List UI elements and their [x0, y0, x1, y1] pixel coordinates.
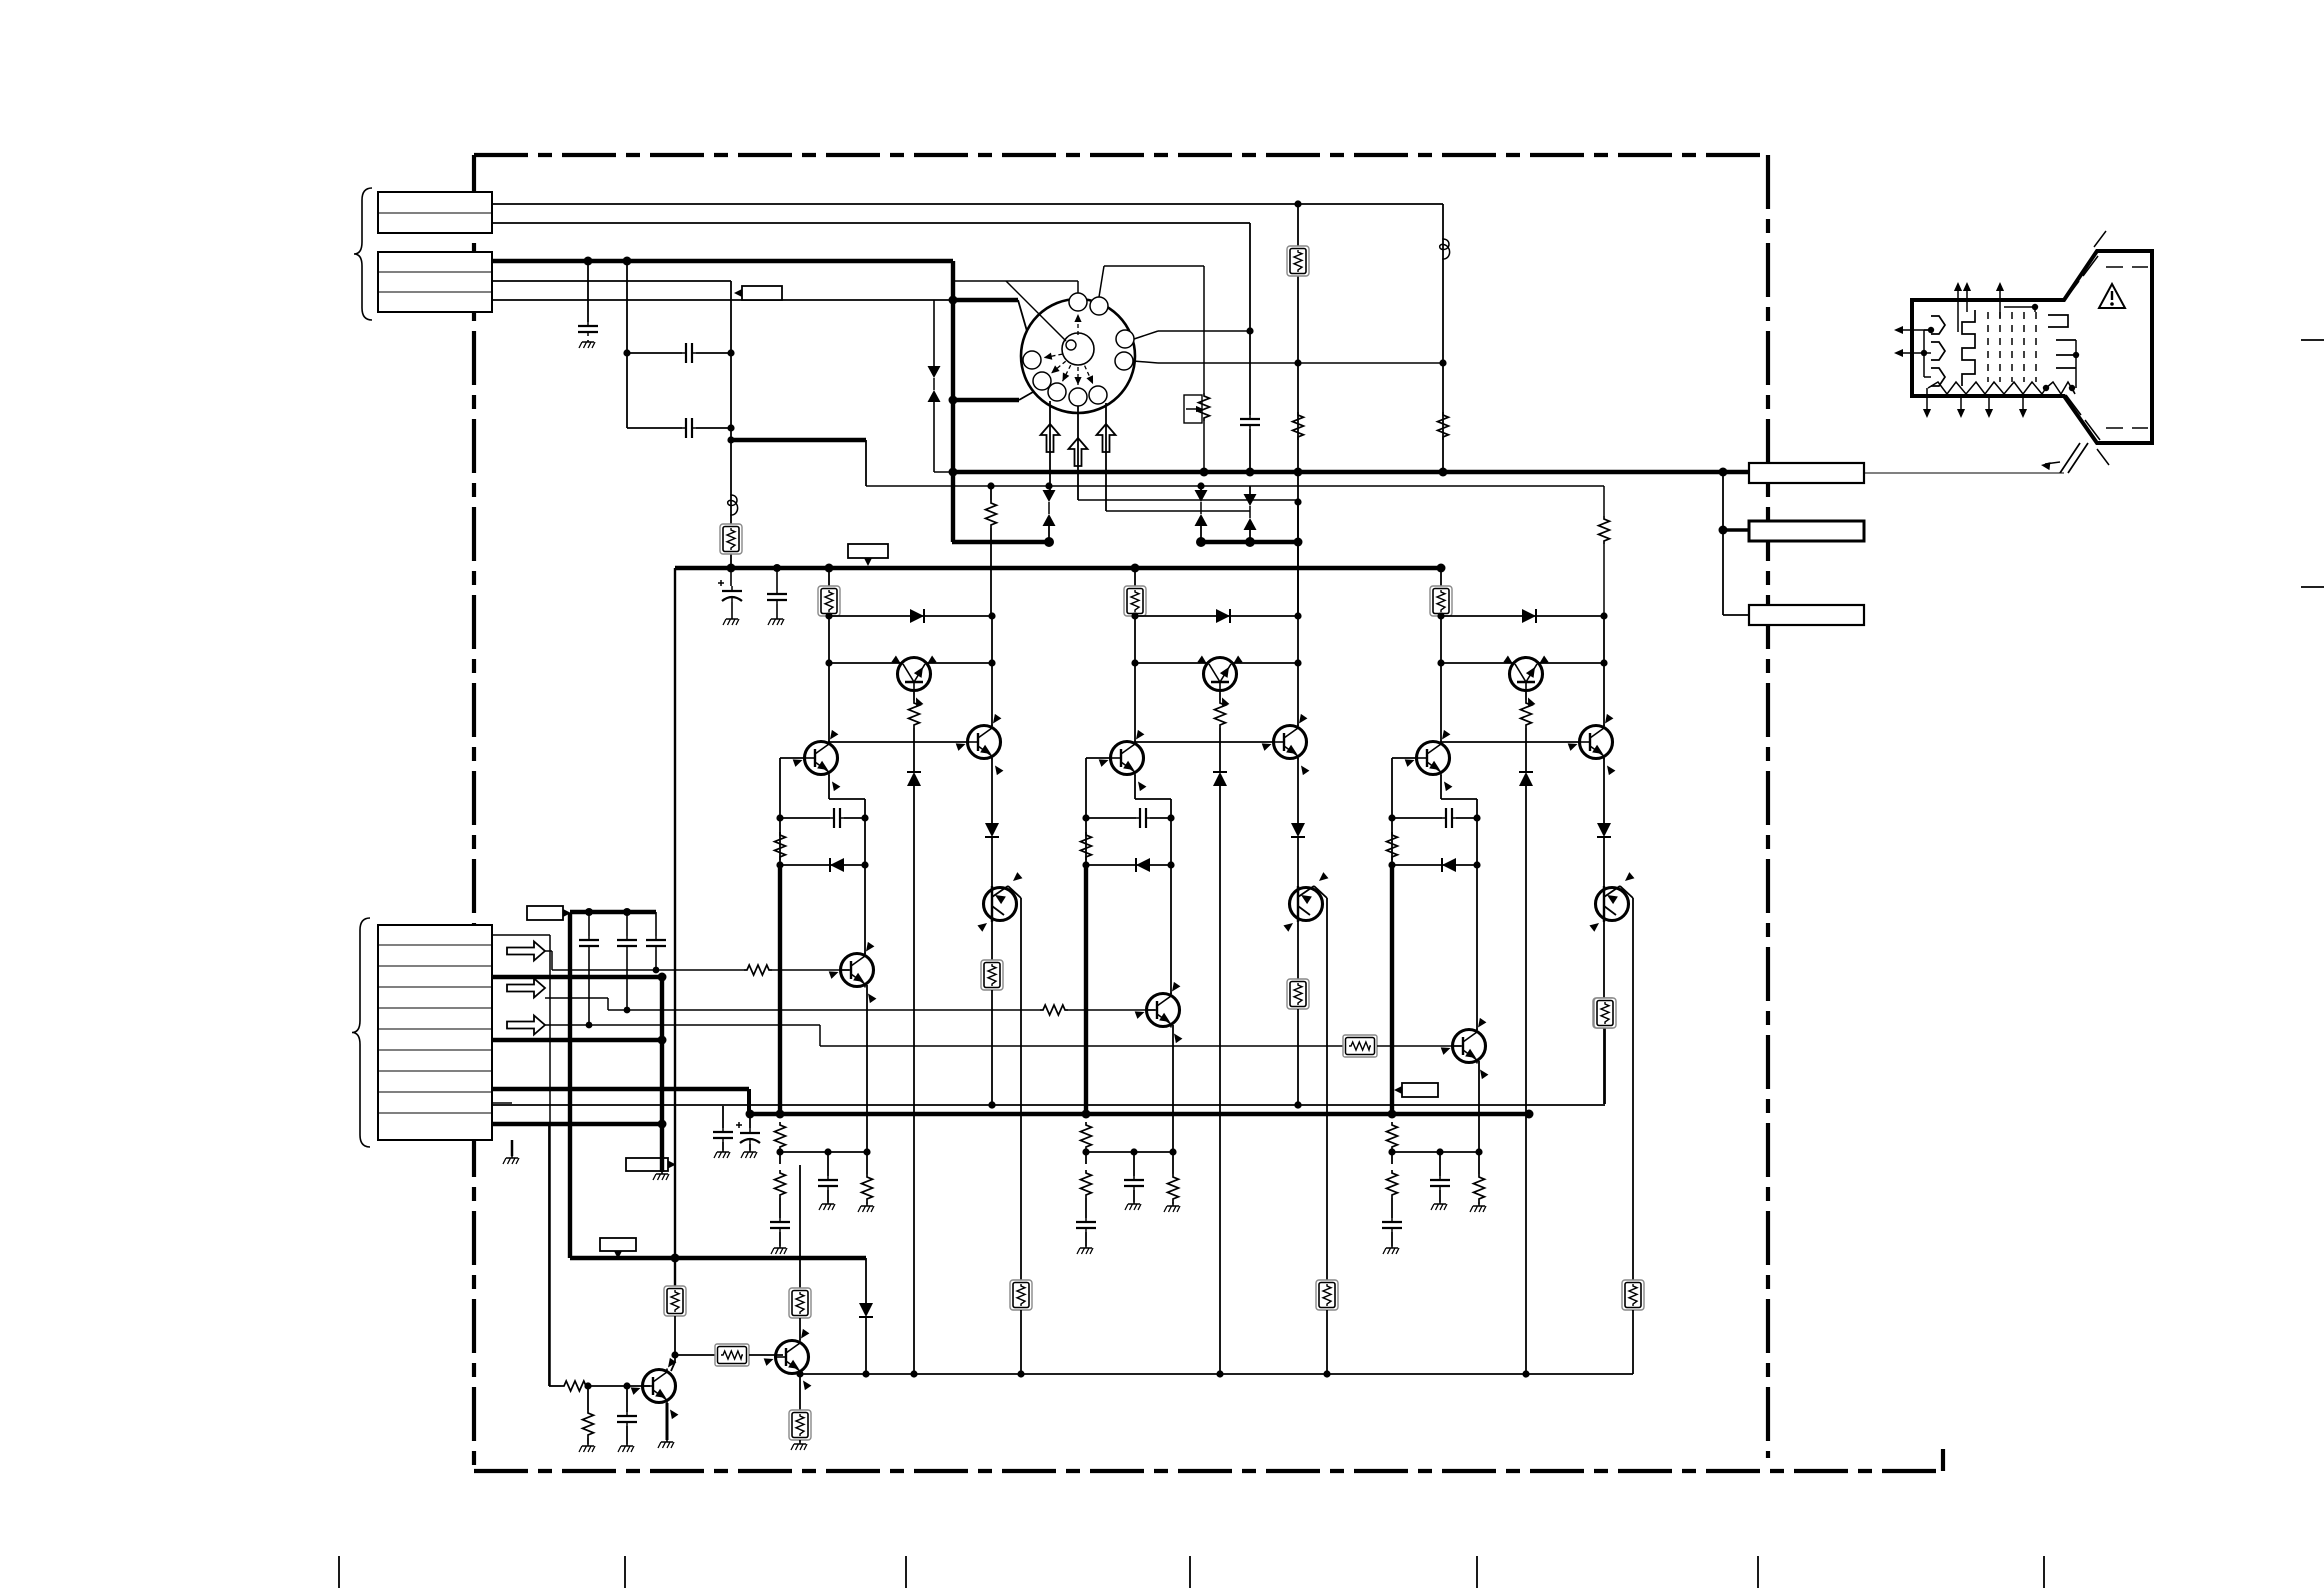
- inductor L x731: [728, 494, 738, 516]
- capacitor x589: [579, 936, 599, 950]
- socket pin p4: [1115, 352, 1133, 370]
- wire chB base row y742: [1441, 741, 1580, 743]
- label box LB3: [600, 1238, 636, 1259]
- node chR bus: [776, 1110, 785, 1119]
- CRT cathode K1: [1931, 316, 1945, 334]
- fusible resistor chR F: [818, 586, 840, 616]
- CRT grid 3: [2011, 312, 2013, 382]
- wire chG Q4 emitter step: [1134, 775, 1136, 799]
- label box LB1: [734, 286, 782, 300]
- transistor chR Q5 (driver): [829, 942, 877, 1003]
- wire chG M col: [1219, 690, 1221, 700]
- node Q7 emitter: [796, 1370, 803, 1377]
- label box LB6: [1394, 1083, 1438, 1097]
- CRT cathode K3: [1931, 368, 1945, 386]
- fusible resistor chG R col: [1287, 979, 1309, 1009]
- ground chR c: [858, 1204, 874, 1212]
- wire chG base row y742: [1135, 741, 1274, 743]
- wire to socket pin1: [952, 280, 1078, 282]
- brace bottom connector: [352, 918, 370, 1147]
- socket pin p8: [1033, 372, 1051, 390]
- CRT socket: [1021, 299, 1135, 413]
- resistor R input base: [744, 965, 772, 975]
- CRT dash top outer: [2094, 231, 2106, 247]
- wire w1 thick: [492, 259, 953, 263]
- wire gnd pin1 thick: [492, 975, 662, 979]
- fusible resistor chR emitter: [1010, 1280, 1032, 1310]
- CRT dash top inner: [2106, 266, 2148, 268]
- CRT envelope: [1912, 251, 2152, 443]
- wire x1250 down: [1249, 223, 1251, 415]
- capacitor chG fb: [1136, 808, 1150, 828]
- wire x991 top: [990, 486, 992, 500]
- wire Q6-Q7 base: [675, 1354, 715, 1356]
- resistor chR ladder top: [775, 1122, 786, 1150]
- label box LB2: [848, 544, 888, 566]
- wire x731 down: [730, 281, 732, 568]
- wire chB diode row y616: [1441, 615, 1604, 617]
- resistor chG under Q1: [1215, 700, 1226, 728]
- wire thick y542: [1201, 540, 1298, 544]
- socket dashed arrow to p5: [1085, 366, 1093, 385]
- wire cap3 x656: [655, 912, 657, 936]
- ground chG a: [1077, 1246, 1093, 1254]
- wire gnd pin2 thick: [492, 1038, 662, 1042]
- main unit boundary right (dash-dot): [1766, 155, 1770, 1458]
- wire from socket pin3: [1134, 331, 1158, 339]
- resistor G input base: [1040, 1005, 1068, 1015]
- wire chB Q5 emitter: [1478, 1061, 1480, 1152]
- transistor chB Q4 (left): [1405, 730, 1453, 791]
- wire y500: [1078, 499, 1298, 501]
- arrow input B: [507, 1016, 545, 1035]
- node chB bus tap: [1437, 564, 1446, 573]
- CRT arrow down 2: [1960, 396, 1962, 414]
- wire chR diode row y616: [829, 615, 992, 617]
- wire chR L col: [779, 758, 781, 865]
- CRT dash top diag b: [2083, 256, 2098, 276]
- arrow drive R: [1041, 424, 1060, 452]
- wire y486: [866, 485, 1604, 487]
- socket dashed arrow to p6: [1077, 367, 1079, 385]
- ground chG c: [1164, 1204, 1180, 1212]
- socket pin p3: [1116, 330, 1134, 348]
- transistor chR Q4 (left): [793, 730, 841, 791]
- transistor chR Q2 (right): [956, 714, 1004, 775]
- wire to connector out3: [1723, 614, 1749, 616]
- CRT dash bottom diag a: [2066, 395, 2081, 415]
- socket pin p1: [1069, 293, 1087, 311]
- wire chG L col thick down: [1084, 865, 1088, 1114]
- wire chR base row y742: [829, 741, 968, 743]
- resistor chG L col: [1081, 832, 1092, 860]
- wire chG ladder row: [1086, 1151, 1173, 1153]
- diode chR fb: [830, 858, 844, 872]
- wire x1604 top: [1603, 486, 1605, 516]
- wire chB E col: [1476, 799, 1478, 954]
- diode chB up: [1519, 772, 1533, 786]
- wire chG top row y663: [1135, 662, 1298, 664]
- CRT arrow up 1: [1957, 286, 1959, 332]
- ground chB a: [1383, 1246, 1399, 1254]
- ground Q6 emitter: [658, 1440, 674, 1448]
- wire x627: [626, 261, 628, 428]
- wire chG Q5 emitter: [1172, 1025, 1174, 1152]
- capacitor chB ladder mid: [1430, 1176, 1450, 1190]
- diode chG fb: [1136, 858, 1150, 872]
- inductor L x1443: [1440, 238, 1450, 260]
- capacitor C row428: [682, 418, 696, 438]
- fusible resistor chB R col: [1593, 998, 1615, 1028]
- capacitor C row353: [682, 343, 696, 363]
- CRT dash top diag a: [2064, 281, 2079, 301]
- wire thick x952-1049: [952, 540, 1049, 544]
- section tick 6: [1757, 1556, 1759, 1588]
- CRT grid 5: [2035, 312, 2037, 382]
- CRT cathode K2: [1931, 342, 1945, 360]
- wire chB Q4 base: [1392, 757, 1417, 759]
- section tick 5: [1476, 1556, 1478, 1588]
- node Q6 collector: [671, 1351, 678, 1358]
- wire x570 thick: [568, 913, 572, 1258]
- capacitor chB fb: [1442, 808, 1456, 828]
- ground x732: [723, 617, 739, 625]
- resistor chG ladder right: [1168, 1174, 1179, 1202]
- CRT grid 4: [2023, 312, 2025, 382]
- transistor chB Q2 (right): [1568, 714, 1616, 775]
- CRT G3 tick a: [2056, 339, 2076, 341]
- wire chR Q3 emitter: [1020, 898, 1022, 1280]
- brace top connectors: [354, 188, 372, 320]
- wire x800: [799, 1165, 801, 1288]
- transistor Q7: [764, 1329, 812, 1390]
- wire x866 down: [865, 1258, 867, 1303]
- wire connector gnd stub: [511, 1140, 514, 1156]
- wire chR F col to Q4: [828, 663, 830, 744]
- CRT arrow up 3: [1999, 286, 2001, 318]
- diode chB down: [1597, 823, 1611, 837]
- transistor Q6: [631, 1358, 679, 1419]
- diode chG down: [1291, 823, 1305, 837]
- transistor chR Q3 (lower): [984, 888, 1017, 921]
- wire Q6 base row: [549, 1385, 561, 1387]
- transistor chB Q3 (lower): [1596, 888, 1629, 921]
- wire x1723 right rail: [1722, 472, 1724, 615]
- wire chB F col top: [1440, 568, 1442, 586]
- wire chG F col top: [1134, 568, 1136, 586]
- wire B input: [545, 1024, 820, 1026]
- wire socket pin7 down: [1049, 401, 1051, 490]
- arrow drive B: [1097, 424, 1116, 452]
- wire thick to socket pin8: [952, 398, 1019, 402]
- wire thick rail y912: [570, 910, 656, 914]
- fusible resistor chG F: [1124, 586, 1146, 616]
- wire chB Q3 emitter: [1632, 898, 1634, 1280]
- wire chB ladder row: [1392, 1151, 1479, 1153]
- wire chR diode row y865: [780, 864, 865, 866]
- transistor chG Q1 (top): [1197, 656, 1242, 708]
- CRT arrow up 2: [1966, 286, 1968, 312]
- node chB bus: [1388, 1110, 1397, 1119]
- fusible resistor x731: [720, 524, 742, 554]
- node chR bus tap: [825, 564, 834, 573]
- wire chG E col: [1170, 799, 1172, 954]
- resistor chR ladder right: [862, 1174, 873, 1202]
- ground Q6 base: [579, 1444, 595, 1452]
- wire chB top row y663: [1441, 662, 1604, 664]
- capacitor chG ladder mid: [1124, 1176, 1144, 1190]
- capacitor chR fb: [830, 808, 844, 828]
- diode chG up: [1213, 772, 1227, 786]
- double diode x1049: [1043, 490, 1056, 526]
- connector CN bottom: [378, 925, 492, 1140]
- wire x550 long: [549, 935, 551, 1386]
- node chG bus tap: [1131, 564, 1140, 573]
- wire gnd pin3 thick: [492, 1122, 662, 1126]
- right tick 2: [2301, 586, 2324, 588]
- CRT dash bottom inner: [2106, 427, 2148, 429]
- CRT cathode bus: [1923, 330, 1925, 377]
- resistor chR L col: [775, 832, 786, 860]
- wire chB L col thick down: [1390, 865, 1394, 1114]
- CRT grid 1: [1987, 312, 1989, 382]
- CRT anode lead b: [2068, 443, 2088, 473]
- ground chR b: [819, 1202, 835, 1210]
- resistor chR under Q1: [909, 700, 920, 728]
- transistor chR Q1 (top): [891, 656, 936, 708]
- wire cap row1: [627, 352, 682, 354]
- wire video bus y568: [675, 566, 1442, 570]
- CRT G3 tick c: [2056, 367, 2076, 369]
- wire chG cap row: [1086, 817, 1136, 819]
- fusible resistor Q7 collector: [789, 1288, 811, 1318]
- connector out3: [1749, 605, 1864, 625]
- section tick 7: [2043, 1556, 2045, 1588]
- boxed resistor B input: [1343, 1035, 1377, 1057]
- wire Q6 emitter: [666, 1403, 669, 1440]
- wire chB diode row y865: [1392, 864, 1477, 866]
- CRT anode lead a: [2060, 443, 2080, 473]
- transistor chB Q5 (driver): [1441, 1018, 1489, 1079]
- diode chB D1: [1522, 609, 1536, 623]
- wire thick y440: [731, 438, 866, 442]
- wire rail y1374: [800, 1373, 1633, 1375]
- resistor chR ladder left: [775, 1170, 786, 1198]
- wire chB Q4 emitter step: [1440, 775, 1442, 799]
- resistor chG ladder top: [1081, 1122, 1092, 1150]
- socket pin p9: [1023, 351, 1041, 369]
- wire rail y1105: [492, 1104, 1605, 1106]
- wire chG Q3 emitter: [1326, 898, 1328, 1280]
- capacitor chB ladder bottom: [1382, 1218, 1402, 1232]
- CRT G2 bracket: [2048, 315, 2068, 327]
- section tick 4: [1189, 1556, 1191, 1588]
- connector CN top-2: [378, 252, 492, 312]
- double diode x1201: [1195, 490, 1208, 526]
- wire lineA: [492, 203, 1443, 205]
- fusible resistor Q7 emitter: [789, 1410, 811, 1440]
- ground connector: [653, 1172, 669, 1180]
- wire chR ladder row: [780, 1151, 867, 1153]
- label box LB5: [527, 906, 571, 920]
- wire +B bus y472: [953, 470, 1749, 474]
- ground chB b: [1431, 1202, 1447, 1210]
- diode x866: [859, 1303, 873, 1317]
- wire chB L col: [1391, 758, 1393, 865]
- resistor chG ladder left: [1081, 1170, 1092, 1198]
- ground chB c: [1470, 1204, 1486, 1212]
- diode chR down: [985, 823, 999, 837]
- socket dashed arrow to p9: [1044, 354, 1063, 358]
- wire gnd rail x662: [660, 977, 664, 1172]
- main unit boundary top (dash-dot): [474, 153, 1768, 157]
- transistor chG Q2 (right): [1262, 714, 1310, 775]
- wire lineB: [492, 222, 1250, 224]
- CRT dash bottom outer: [2097, 449, 2109, 465]
- wire thick to socket pin9: [952, 298, 1018, 302]
- socket pin p2: [1090, 297, 1108, 315]
- wire chR R col: [991, 616, 993, 726]
- wire chB R col: [1603, 616, 1605, 726]
- wire chR F col top: [828, 568, 830, 586]
- capacitor x723: [713, 1128, 733, 1142]
- fusible resistor chG emitter: [1316, 1280, 1338, 1310]
- potentiometer VR (screen): [1184, 395, 1202, 423]
- node chG bus: [1082, 1110, 1091, 1119]
- CRT G3 tick b: [2056, 354, 2076, 356]
- wire cap x777: [776, 568, 778, 590]
- socket key line: [1006, 281, 1066, 341]
- diode chR up: [907, 772, 921, 786]
- wire cap2 x627b: [626, 912, 628, 936]
- CRT G3 stem: [2075, 340, 2077, 388]
- wire supply thick: [492, 1087, 749, 1091]
- wire chG F col to Q4: [1134, 663, 1136, 744]
- connector out2: [1749, 521, 1864, 541]
- wire cap1 x589: [588, 912, 590, 936]
- socket pin p7: [1048, 383, 1066, 401]
- wire chR Q4 emitter step: [828, 775, 830, 799]
- wire x934: [933, 300, 935, 366]
- section tick 1: [338, 1556, 340, 1588]
- CRT arrow down 3: [1988, 396, 1990, 414]
- wire socket pin6 down: [1077, 406, 1079, 500]
- fusible resistor chB F: [1430, 586, 1452, 616]
- CRT arrow left 1: [1898, 329, 1931, 331]
- diode chR D1: [910, 609, 924, 623]
- wire chG R col: [1297, 616, 1299, 726]
- arrow drive G: [1069, 438, 1088, 466]
- CRT anode arrow: [2041, 461, 2051, 470]
- CRT G1 electrode: [1962, 310, 1975, 386]
- ground Q6 cap: [618, 1444, 634, 1452]
- CRT arrow down 4: [2022, 396, 2024, 414]
- wire chR Q5 emitter: [866, 985, 868, 1152]
- ground connector body: [503, 1156, 519, 1164]
- socket pin p5: [1089, 386, 1107, 404]
- resistor chB ladder top: [1387, 1122, 1398, 1150]
- resistor Q6 base divider: [583, 1410, 594, 1438]
- CRT arrow down 1: [1926, 388, 1928, 414]
- wire w2: [492, 280, 731, 282]
- double diode x934: [928, 366, 941, 402]
- capacitor C x1250: [1240, 415, 1260, 429]
- wire ecap x732: [730, 568, 732, 586]
- wire to connector out2: [1723, 528, 1749, 532]
- ground chR a: [771, 1246, 787, 1254]
- wire socket pin5 down: [1105, 403, 1107, 511]
- ground Q7 emitter: [791, 1442, 807, 1450]
- fusible resistor x1605: [1594, 998, 1616, 1028]
- capacitor Q6 base: [617, 1412, 637, 1426]
- capacitor chR ladder bottom: [770, 1218, 790, 1232]
- arrow input R: [507, 942, 545, 961]
- section tick 2: [624, 1556, 626, 1588]
- wire chG diode row y865: [1086, 864, 1171, 866]
- transistor chG Q5 (driver): [1135, 982, 1183, 1043]
- resistor chB ladder right: [1474, 1174, 1485, 1202]
- wire x1298 column: [1297, 204, 1299, 616]
- wire chR cap row: [780, 817, 830, 819]
- diode chB fb: [1442, 858, 1456, 872]
- fusible resistor chR R col: [981, 960, 1003, 990]
- capacitor C x588: [578, 322, 598, 336]
- wire chR top row y663: [829, 662, 992, 664]
- wire x866 down to y486: [865, 440, 867, 486]
- capacitor chR ladder mid: [818, 1176, 838, 1190]
- socket pin p6: [1069, 388, 1087, 406]
- double diode x1250: [1244, 494, 1257, 530]
- wire x1443 column: [1442, 204, 1444, 472]
- wire x1605 to fres: [1604, 1020, 1606, 1104]
- wire from socket pin4: [1133, 361, 1158, 363]
- capacitor x777: [767, 590, 787, 604]
- wire chG diode row y616: [1135, 615, 1298, 617]
- wire to CRT anode: [1864, 472, 2064, 474]
- capacitor electrolytic x732: [718, 580, 742, 602]
- ground chG b: [1125, 1202, 1141, 1210]
- label box LB4: [626, 1158, 676, 1171]
- wire cap x723: [722, 1106, 724, 1128]
- transistor chG Q3 (lower): [1290, 888, 1323, 921]
- main unit boundary left (dash-dot): [472, 155, 476, 1471]
- diode chG D1: [1216, 609, 1230, 623]
- fusible resistor x1298: [1287, 246, 1309, 276]
- resistor chB under Q1: [1521, 700, 1532, 728]
- wire chB cap row: [1392, 817, 1442, 819]
- transistor chB Q1 (top): [1503, 656, 1548, 708]
- CRT anode wire: [2045, 462, 2060, 464]
- wire from socket pin2: [1099, 266, 1104, 297]
- wire chB F col to Q4: [1440, 663, 1442, 744]
- CRT grid 2: [1999, 312, 2001, 382]
- wire x1204: [1203, 266, 1205, 393]
- ground x777: [768, 617, 784, 625]
- wire pin1: [492, 934, 550, 936]
- wire chR M col: [913, 690, 915, 700]
- wire y511: [1106, 510, 1250, 512]
- CRT arrow left 2: [1898, 352, 1924, 354]
- capacitor chG ladder bottom: [1076, 1218, 1096, 1232]
- wire chG L col: [1085, 758, 1087, 865]
- section tick 3: [905, 1556, 907, 1588]
- wire x588: [587, 261, 589, 322]
- resistor chB ladder left: [1387, 1170, 1398, 1198]
- capacitor x656: [646, 936, 666, 950]
- main unit boundary bottom (dash-dot): [474, 1469, 1943, 1473]
- resistor Q6 base: [561, 1381, 589, 1391]
- connector out1: [1749, 463, 1864, 483]
